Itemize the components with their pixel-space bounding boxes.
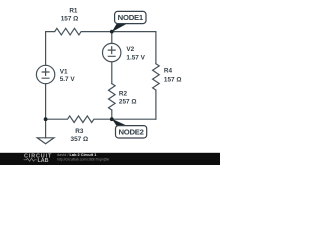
svg-text:V2: V2: [126, 46, 134, 53]
svg-text:V1: V1: [60, 68, 68, 75]
NODE2 flag box: [116, 126, 147, 138]
svg-text:1.57 V: 1.57 V: [126, 55, 145, 62]
node B junction dot (bottom, NODE2): [110, 117, 114, 121]
NODE1 flag box: [115, 11, 146, 23]
resistor R2 zigzag: [109, 84, 116, 110]
node C junction dot (bottom-left, ground): [44, 117, 48, 121]
voltage source V1: [36, 65, 54, 83]
wire left vertical lower (V1 bottom to bottom wire): [45, 84, 47, 120]
wire bottom with resistor R3 zigzag: [46, 116, 156, 123]
svg-text:http://circuitlab.com/c/8bb7hq: http://circuitlab.com/c/8bb7hqmj5kr: [57, 157, 110, 161]
node A junction dot (top, NODE1): [110, 30, 114, 34]
CircuitLab logo zigzag: [24, 158, 37, 161]
svg-text:157 Ω: 157 Ω: [61, 15, 79, 22]
resistor R4 zigzag: [153, 64, 160, 90]
wire left vertical upper (corner to V1 top): [45, 32, 47, 66]
wire R2 bottom stub: [111, 110, 113, 119]
wire V2 bottom to R2 top: [111, 62, 113, 84]
svg-text:NODE2: NODE2: [118, 128, 143, 137]
wire ground stub: [45, 119, 47, 138]
svg-text:NODE1: NODE1: [118, 13, 144, 22]
wire V2 top stub: [111, 32, 113, 44]
svg-text:157 Ω: 157 Ω: [164, 77, 182, 84]
svg-text:5.7 V: 5.7 V: [60, 76, 76, 83]
svg-text:357 Ω: 357 Ω: [71, 136, 89, 143]
wire right vertical upper: [155, 32, 157, 64]
footer watermark bar: [0, 153, 220, 165]
voltage source V2: [103, 43, 121, 61]
svg-text:R3: R3: [75, 128, 84, 135]
svg-text:257 Ω: 257 Ω: [119, 99, 137, 106]
svg-text:R4: R4: [164, 68, 173, 75]
svg-text:R2: R2: [119, 90, 128, 97]
wire top with resistor R1 zigzag: [46, 28, 156, 35]
NODE1 flag pointer: [112, 24, 127, 32]
svg-text:LAB: LAB: [38, 158, 49, 164]
ground: [37, 138, 54, 144]
svg-text:R1: R1: [69, 8, 78, 15]
NODE2 flag pointer: [112, 119, 127, 126]
wire right vertical lower: [155, 90, 157, 119]
